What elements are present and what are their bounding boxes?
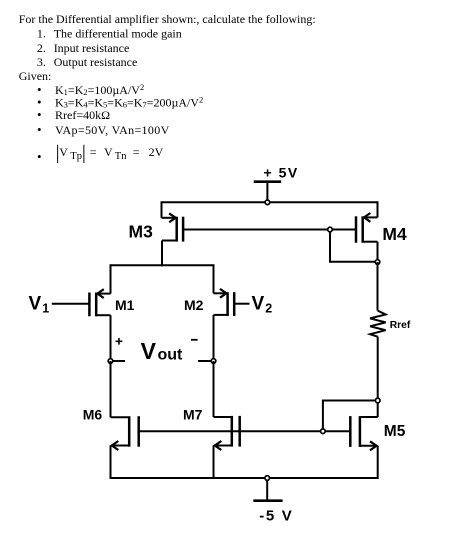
svg-text:Rref=40kΩ: Rref=40kΩ: [55, 108, 110, 122]
M7 drain lead wire: [214, 416, 231, 418]
M7 channel bar: [231, 416, 234, 447]
wire: M3 gate to M4 gate: [183, 229, 356, 231]
M2 channel bar: [226, 292, 229, 316]
svg-text:Rref: Rref: [390, 320, 411, 331]
M7 gate bar: [238, 416, 241, 447]
node: -5V tap: [265, 476, 270, 481]
svg-text:2.: 2.: [37, 41, 46, 55]
M6 channel bar: [128, 416, 131, 447]
svg-text:V: V: [252, 293, 265, 314]
wire: M5 gate stub: [325, 430, 350, 432]
transistor M4: [356, 201, 378, 262]
svg-text:1.: 1.: [37, 27, 46, 41]
svg-text:+ 5V: + 5V: [264, 164, 299, 180]
M5 source to rail wire: [377, 446, 379, 479]
node: mirror gate: [328, 227, 333, 232]
M6 gate bar: [137, 416, 140, 447]
M4 source lead wire: [377, 201, 379, 217]
svg-text:M1: M1: [115, 297, 135, 313]
wire: M6/M7/M5 gate line: [139, 430, 321, 432]
M6 source to rail wire: [110, 446, 112, 480]
M2 source lead wire: [214, 314, 228, 316]
node: output - terminal: [211, 359, 216, 364]
svg-text:V: V: [29, 293, 42, 314]
svg-text:The differential mode gain: The differential mode gain: [54, 27, 182, 41]
svg-text:For the Differential amplifier: For the Differential amplifier shown:, c…: [19, 12, 316, 26]
plus sign: [116, 338, 123, 345]
svg-text:•: •: [37, 107, 42, 122]
M3 source arrow: [169, 213, 175, 222]
minus sign: [191, 339, 198, 341]
-5V supply stem wire: [266, 480, 268, 501]
M1 source lead wire: [96, 314, 110, 316]
svg-text:M3: M3: [129, 221, 154, 241]
M1 drain lead wire: [110, 264, 112, 293]
svg-text:1: 1: [42, 302, 49, 316]
transistor M1: [52, 264, 111, 361]
svg-text:•: •: [37, 122, 42, 137]
svg-text:Output resistance: Output resistance: [54, 55, 138, 69]
M2 gate bar: [233, 292, 236, 316]
wire: M1 source to M6 drain: [110, 361, 112, 417]
M2 drain arrow: [220, 289, 226, 298]
wire: M5 gate-drain tie: [323, 401, 376, 429]
svg-text:out: out: [158, 347, 184, 364]
M6 source arrow: [112, 441, 119, 450]
svg-text:-5 V: -5 V: [259, 507, 293, 524]
svg-text:M6: M6: [83, 406, 103, 422]
top rail wire: [162, 201, 378, 203]
M6 source lead wire: [111, 445, 129, 447]
transistor M7: [214, 416, 240, 479]
svg-text:V: V: [141, 338, 157, 364]
-5V supply bar: [253, 499, 282, 502]
transistor M2: [214, 264, 250, 361]
wire: output - stub: [198, 360, 211, 362]
svg-text:M5: M5: [384, 423, 406, 440]
transistor M3: [162, 201, 184, 266]
bottom rail wire: [111, 477, 378, 479]
svg-text:2: 2: [265, 302, 272, 316]
M5 source lead wire: [360, 445, 377, 447]
+5V supply stem wire: [266, 182, 268, 200]
M4 gate bar: [355, 216, 358, 242]
wire: M4 drain to Rref: [377, 262, 379, 311]
M4 channel bar: [361, 216, 364, 242]
svg-text:VAp=50V, VAn=100V: VAp=50V, VAn=100V: [55, 123, 170, 137]
M7 source arrow: [215, 441, 222, 450]
M6 drain lead wire: [111, 416, 129, 418]
node: M4 drain: [375, 260, 380, 265]
M5 drain lead wire: [377, 403, 379, 417]
M3 gate bar: [182, 217, 185, 242]
resistor Rref: [370, 311, 386, 337]
svg-text:Given:: Given:: [19, 69, 52, 83]
svg-text:3.: 3.: [37, 55, 46, 69]
node: M5 gate: [321, 429, 326, 434]
wire: M4 gate-drain tie: [330, 232, 378, 262]
svg-text:M7: M7: [183, 406, 203, 422]
M3 channel bar: [175, 217, 178, 242]
wire: Rref to M5 drain: [377, 337, 379, 401]
M7 source lead wire: [214, 445, 232, 447]
M5 channel bar: [359, 416, 362, 447]
node: +5V tap: [265, 200, 270, 205]
M1 gate bar: [88, 293, 91, 317]
svg-text:•: •: [37, 149, 42, 164]
M4 drain lead wire: [363, 241, 378, 243]
M1 gate lead wire from V1: [52, 303, 90, 305]
wire: output + stub: [113, 360, 125, 362]
transistor M5: [350, 403, 377, 479]
M3 source lead wire: [161, 201, 163, 218]
node: M5 drain: [375, 398, 380, 403]
node: output + terminal: [108, 359, 113, 364]
M1 drain arrow: [97, 289, 103, 298]
M2 drain lead wire: [213, 264, 215, 293]
M5 gate bar: [349, 416, 352, 447]
svg-text:M2: M2: [184, 297, 204, 313]
M2 gate lead wire from V2: [234, 303, 249, 305]
svg-text:Input resistance: Input resistance: [54, 41, 130, 55]
wire: M2 source to M7 drain: [213, 361, 215, 417]
+5V supply bar: [254, 180, 282, 183]
M3 drain lead wire: [162, 240, 177, 242]
M7 source to rail wire: [213, 446, 215, 480]
transistor M6: [111, 416, 139, 479]
M1 channel bar: [95, 293, 98, 317]
svg-text:M4: M4: [382, 224, 407, 244]
wire: diff-pair drain tie: [111, 264, 214, 266]
M4 source arrow: [364, 213, 370, 222]
M5 source arrow: [370, 441, 377, 450]
